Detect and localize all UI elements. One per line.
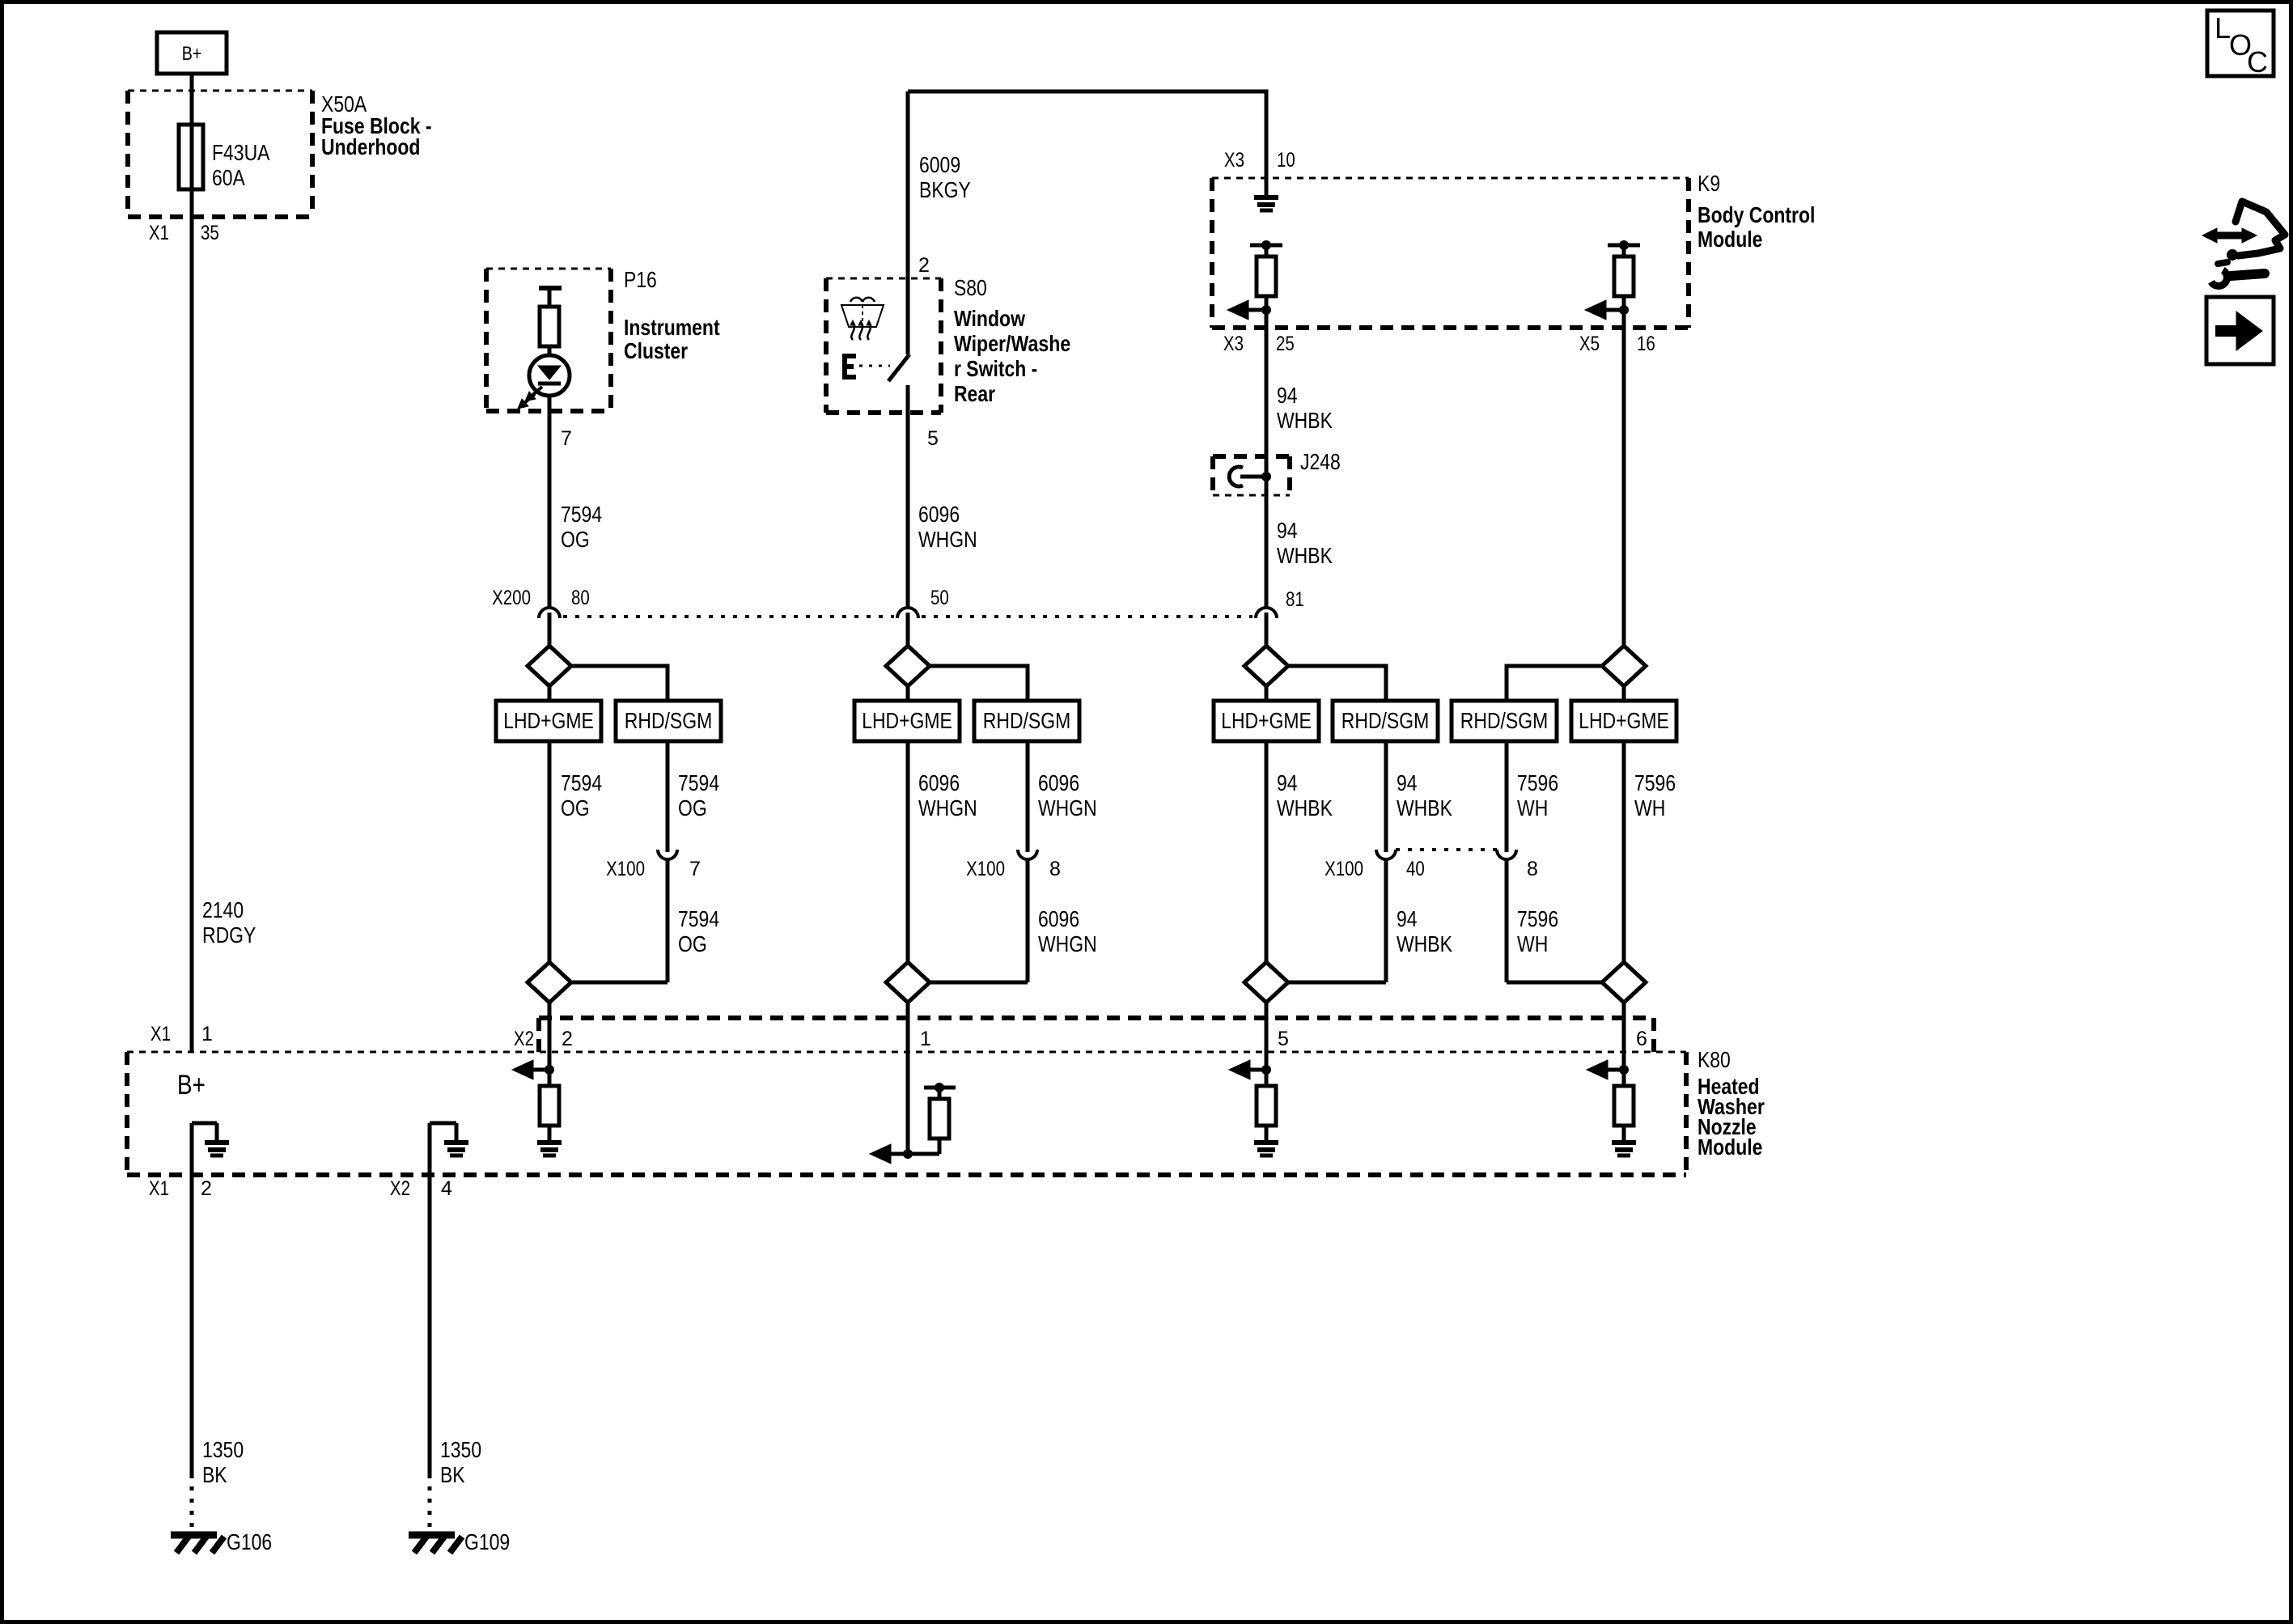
svg-text:X100: X100 — [606, 858, 645, 880]
svg-text:WHBK: WHBK — [1277, 795, 1333, 820]
svg-text:1: 1 — [920, 1028, 931, 1050]
svg-text:WH: WH — [1517, 931, 1548, 956]
svg-text:5: 5 — [927, 427, 939, 450]
svg-text:X3: X3 — [1223, 333, 1244, 355]
svg-text:WHGN: WHGN — [1038, 931, 1097, 956]
svg-text:8: 8 — [1527, 858, 1538, 880]
svg-text:2140: 2140 — [202, 897, 244, 922]
svg-text:1350: 1350 — [440, 1437, 481, 1462]
svg-text:K9: K9 — [1697, 171, 1720, 196]
svg-text:Body Control: Body Control — [1697, 202, 1815, 227]
svg-text:X100: X100 — [966, 858, 1005, 880]
svg-text:16: 16 — [1637, 333, 1655, 355]
svg-text:r Switch -: r Switch - — [954, 356, 1037, 381]
svg-text:94: 94 — [1397, 770, 1418, 795]
svg-text:5: 5 — [1278, 1028, 1289, 1050]
svg-text:X2: X2 — [514, 1028, 534, 1050]
svg-text:94: 94 — [1277, 770, 1298, 795]
svg-text:Rear: Rear — [954, 381, 995, 406]
svg-text:X5: X5 — [1579, 333, 1600, 355]
svg-text:7594: 7594 — [561, 502, 602, 527]
svg-text:OG: OG — [561, 527, 590, 552]
svg-text:LHD+GME: LHD+GME — [862, 708, 952, 733]
svg-text:G109: G109 — [464, 1529, 510, 1554]
svg-text:6009: 6009 — [919, 152, 960, 177]
svg-text:RHD/SGM: RHD/SGM — [983, 708, 1070, 733]
svg-text:7594: 7594 — [678, 770, 719, 795]
svg-text:Underhood: Underhood — [321, 134, 420, 159]
svg-text:Module: Module — [1697, 1134, 1762, 1160]
svg-text:RHD/SGM: RHD/SGM — [1460, 708, 1548, 733]
svg-text:RHD/SGM: RHD/SGM — [1341, 708, 1429, 733]
svg-text:X3: X3 — [1224, 149, 1244, 172]
svg-text:F43UA: F43UA — [212, 140, 270, 165]
svg-text:RHD/SGM: RHD/SGM — [625, 708, 712, 733]
svg-text:7594: 7594 — [678, 906, 719, 931]
svg-text:C: C — [2247, 45, 2268, 78]
svg-text:B+: B+ — [177, 1070, 206, 1100]
svg-text:WHBK: WHBK — [1397, 931, 1452, 956]
svg-text:80: 80 — [571, 587, 590, 609]
svg-text:OG: OG — [678, 931, 707, 956]
svg-text:WHGN: WHGN — [1038, 795, 1097, 820]
svg-text:WH: WH — [1634, 795, 1665, 820]
svg-text:WH: WH — [1517, 795, 1548, 820]
svg-text:10: 10 — [1277, 149, 1295, 172]
svg-text:WHGN: WHGN — [918, 795, 977, 820]
svg-text:Module: Module — [1697, 227, 1762, 252]
svg-text:S80: S80 — [954, 275, 987, 300]
svg-text:94: 94 — [1397, 906, 1418, 931]
svg-text:7596: 7596 — [1634, 770, 1676, 795]
svg-text:1: 1 — [201, 1023, 213, 1045]
svg-text:X2: X2 — [390, 1177, 410, 1200]
svg-text:81: 81 — [1286, 588, 1304, 611]
svg-text:WHBK: WHBK — [1277, 543, 1333, 568]
svg-text:6096: 6096 — [1038, 770, 1079, 795]
svg-text:X200: X200 — [492, 587, 531, 609]
svg-text:OG: OG — [678, 795, 707, 820]
svg-text:1350: 1350 — [202, 1437, 244, 1462]
svg-text:7: 7 — [561, 427, 572, 450]
svg-text:60A: 60A — [212, 165, 245, 190]
svg-text:94: 94 — [1277, 518, 1298, 543]
svg-text:7596: 7596 — [1517, 770, 1558, 795]
svg-text:50: 50 — [930, 587, 949, 609]
svg-text:35: 35 — [201, 222, 219, 244]
svg-text:6096: 6096 — [918, 502, 960, 527]
svg-text:25: 25 — [1276, 333, 1295, 355]
svg-text:2: 2 — [562, 1028, 573, 1050]
svg-text:LHD+GME: LHD+GME — [1221, 708, 1312, 733]
svg-text:WHBK: WHBK — [1277, 408, 1333, 433]
svg-text:X1: X1 — [150, 1023, 171, 1045]
svg-text:Wiper/Washe: Wiper/Washe — [954, 331, 1070, 356]
svg-text:7596: 7596 — [1517, 906, 1558, 931]
svg-text:B+: B+ — [182, 43, 202, 65]
svg-text:LHD+GME: LHD+GME — [1579, 708, 1669, 733]
svg-text:4: 4 — [441, 1177, 452, 1200]
svg-text:J248: J248 — [1300, 449, 1341, 474]
svg-text:X100: X100 — [1325, 858, 1363, 880]
svg-text:K80: K80 — [1697, 1047, 1731, 1072]
svg-text:LHD+GME: LHD+GME — [503, 708, 594, 733]
svg-text:6: 6 — [1636, 1028, 1647, 1050]
svg-text:7594: 7594 — [561, 770, 602, 795]
svg-text:2: 2 — [201, 1177, 212, 1200]
svg-text:7: 7 — [689, 858, 701, 880]
svg-text:X1: X1 — [149, 222, 169, 244]
svg-text:RDGY: RDGY — [202, 922, 256, 948]
svg-text:P16: P16 — [624, 267, 657, 292]
svg-text:94: 94 — [1277, 383, 1298, 408]
svg-text:Cluster: Cluster — [624, 338, 688, 363]
svg-text:WHBK: WHBK — [1397, 795, 1452, 820]
svg-text:WHGN: WHGN — [918, 527, 977, 552]
svg-text:8: 8 — [1049, 858, 1061, 880]
svg-text:2: 2 — [918, 254, 930, 277]
svg-text:6096: 6096 — [1038, 906, 1079, 931]
svg-text:X1: X1 — [149, 1177, 169, 1200]
svg-text:BKGY: BKGY — [919, 177, 971, 202]
svg-text:OG: OG — [561, 795, 590, 820]
svg-text:40: 40 — [1406, 858, 1425, 880]
svg-text:6096: 6096 — [918, 770, 960, 795]
svg-text:BK: BK — [202, 1462, 227, 1487]
svg-text:BK: BK — [440, 1462, 465, 1487]
svg-text:Instrument: Instrument — [624, 315, 720, 340]
svg-text:Window: Window — [954, 306, 1025, 331]
svg-text:G106: G106 — [227, 1529, 272, 1554]
